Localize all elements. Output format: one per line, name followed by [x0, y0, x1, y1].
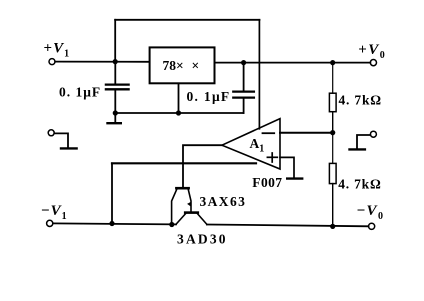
svg-text:+V1: +V1 [44, 41, 71, 60]
op-amp minus sign [263, 132, 275, 134]
wire -V0 rail [207, 225, 369, 227]
transistor Q2 3AD30 [176, 213, 207, 225]
terminal +V1 [49, 59, 55, 65]
resistor R2 [329, 133, 336, 227]
op-amp U2 triangle [222, 119, 280, 169]
wire top rail [115, 19, 259, 21]
wire -V1 rail [53, 223, 176, 224]
terminal +V0 [370, 60, 376, 66]
node regulator ground [176, 110, 181, 115]
wire +V1 to regulator input [55, 61, 149, 63]
svg-text:A1: A1 [250, 136, 265, 155]
node C2 top [241, 60, 246, 65]
svg-text:+V0: +V0 [358, 42, 386, 61]
wire regulator output [215, 62, 371, 64]
node -V1 loop bottom [109, 221, 114, 226]
wire op-amp V- supply [112, 162, 256, 164]
op-amp plus sign [267, 153, 277, 162]
svg-text:0. 1μF: 0. 1μF [59, 85, 101, 100]
ground terminal left [48, 130, 76, 149]
regulator ground pin [178, 83, 180, 113]
wire +V1 riser [114, 20, 116, 62]
wire op-amp output to Q1 base [183, 145, 222, 187]
wire op-amp noninverting input to ground [280, 157, 294, 177]
terminal -V1 [47, 220, 53, 226]
node input junction [113, 59, 118, 64]
terminal -V0 [369, 223, 375, 229]
node C1 ground [113, 110, 118, 115]
transistor Q1 3AX63 [172, 188, 192, 224]
node Q1 collector [169, 222, 174, 227]
wire -V1 loop [111, 163, 113, 223]
capacitor C1 [106, 62, 129, 113]
ground terminal right [350, 131, 377, 149]
svg-text:0. 1μF: 0. 1μF [187, 89, 231, 104]
node R2 bottom [330, 224, 335, 229]
svg-text:3AX63: 3AX63 [200, 194, 247, 209]
svg-text:4. 7kΩ: 4. 7kΩ [339, 92, 382, 107]
svg-text:3AD30: 3AD30 [177, 232, 228, 247]
svg-text:78×: 78× [163, 58, 184, 73]
svg-text:−V0: −V0 [357, 203, 385, 222]
svg-text:×: × [192, 58, 200, 73]
resistor R1 [329, 63, 336, 133]
node R1 top [330, 60, 335, 65]
wire feedback to inverting input [280, 132, 333, 134]
svg-text:4. 7kΩ: 4. 7kΩ [338, 176, 381, 191]
ground symbol under C1 [108, 113, 121, 123]
ground at noninverting input [287, 177, 302, 179]
svg-text:−V1: −V1 [41, 203, 68, 222]
node feedback [330, 130, 335, 135]
regulator U1 box [150, 47, 215, 83]
svg-text:F007: F007 [252, 175, 282, 190]
wire op-amp V+ supply drop [258, 20, 260, 129]
capacitor C2 [233, 63, 254, 113]
wire ground rail [115, 112, 243, 114]
